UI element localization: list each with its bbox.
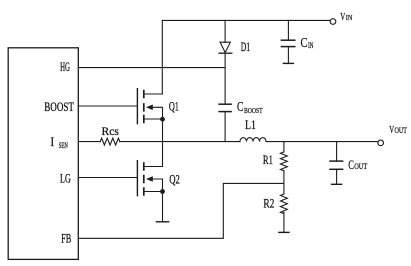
label R1 (263, 153, 273, 167)
svg-text:BOOST: BOOST (44, 100, 74, 114)
wire Q1 source down to Q2 drain (162, 119, 164, 167)
svg-text:C: C (237, 100, 243, 115)
label Q1 (169, 100, 179, 114)
svg-text:C: C (348, 158, 354, 172)
svg-text:Rcs: Rcs (102, 124, 120, 138)
junction dot Q1 source (160, 117, 165, 122)
svg-text:OUT: OUT (354, 161, 368, 171)
svg-text:LG: LG (60, 172, 71, 186)
terminal VOUT (378, 140, 384, 146)
resistor R2 (281, 183, 288, 232)
svg-text:IN: IN (346, 13, 353, 22)
diode D1 (219, 20, 232, 104)
svg-text:L1: L1 (245, 118, 256, 132)
resistor R1 (281, 142, 288, 184)
svg-text:SEN: SEN (59, 141, 69, 150)
wire BOOST pin to Q1 gate (78, 105, 137, 107)
wire Q1 drain up to VIN rail (161, 20, 163, 94)
label CIN (301, 36, 314, 51)
pin label BOOST (44, 100, 74, 114)
pin label ISEN (50, 134, 68, 150)
svg-text:HG: HG (60, 60, 70, 74)
label Rcs (102, 124, 120, 138)
svg-text:I: I (50, 134, 54, 149)
resistor Rcs (100, 138, 120, 145)
svg-text:FB: FB (61, 232, 71, 246)
transistor Q1 (137, 89, 162, 124)
label VOUT (389, 125, 407, 136)
wire VIN top rail (162, 19, 330, 21)
svg-text:C: C (301, 36, 308, 51)
label VIN (340, 12, 352, 23)
svg-text:OUT: OUT (395, 126, 408, 135)
svg-text:IN: IN (308, 41, 314, 50)
svg-text:D1: D1 (241, 40, 251, 54)
terminator bar R2 (279, 231, 289, 233)
wire ISEN pin to Rcs (78, 141, 100, 143)
capacitor CBOOST (219, 104, 231, 141)
wire L1 to VOUT (266, 141, 377, 143)
label COUT (348, 158, 368, 172)
pin label HG (60, 60, 70, 74)
label L1 (245, 118, 256, 132)
label D1 (241, 40, 251, 54)
svg-text:Q1: Q1 (169, 100, 179, 114)
svg-text:R2: R2 (263, 197, 274, 211)
svg-text:Q2: Q2 (169, 172, 180, 186)
pin label LG (60, 172, 71, 186)
terminal VIN (330, 19, 336, 25)
wire HG pin to D1 node (78, 67, 225, 69)
pin label FB (61, 232, 71, 246)
inductor L1 (240, 138, 266, 142)
wire Q2 source to stub (162, 192, 164, 222)
capacitor CIN (281, 20, 294, 63)
label Q2 (169, 172, 180, 186)
wire LG pin to Q2 gate (78, 177, 137, 179)
capacitor COUT (330, 142, 343, 185)
junction dot Q2 source (160, 189, 165, 194)
label CBOOST (237, 100, 263, 115)
wire switch node rail (Rcs to L1) (120, 141, 240, 143)
label R2 (263, 197, 274, 211)
terminator bar Q2 source (156, 221, 168, 223)
IC U1 box (8, 48, 78, 260)
wire FB pin route (78, 183, 284, 238)
svg-text:R1: R1 (263, 153, 273, 167)
svg-text:BOOST: BOOST (244, 106, 263, 115)
transistor Q2 (137, 161, 162, 196)
